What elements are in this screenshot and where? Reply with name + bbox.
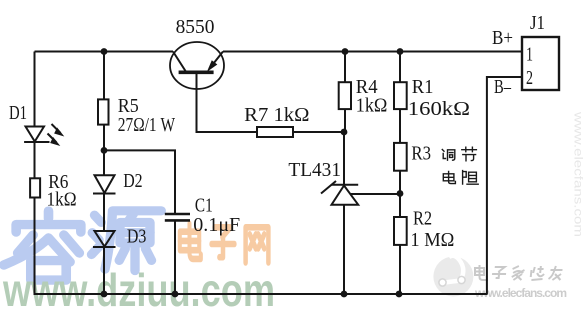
resistor R6: [30, 178, 40, 197]
svg-text:R1: R1: [412, 76, 434, 98]
wire left rail: [34, 52, 36, 296]
svg-text:J1: J1: [530, 12, 545, 34]
svg-text:27Ω/1 W: 27Ω/1 W: [118, 114, 175, 136]
wire C1 branch: [104, 150, 175, 294]
resistor R3: [394, 143, 407, 171]
svg-text:C1: C1: [195, 194, 213, 216]
svg-text:R3: R3: [411, 143, 431, 165]
svg-text:D2: D2: [123, 170, 142, 192]
svg-text:TL431: TL431: [288, 159, 341, 181]
node top rail R4: [342, 48, 349, 55]
svg-text:www.dziuu.com: www.dziuu.com: [2, 264, 275, 309]
resistor R5: [98, 99, 109, 124]
svg-text:www.elecfans.com: www.elecfans.com: [572, 111, 583, 237]
wire top rail right: [223, 51, 522, 53]
stamp logo circle: [433, 257, 473, 297]
svg-text:D3: D3: [127, 226, 146, 248]
diode D3: [93, 231, 116, 247]
wire R5 branch: [103, 52, 105, 151]
watermark blue char YUAN: [92, 211, 162, 271]
LED D1: [24, 124, 63, 145]
connector J1 box: [522, 37, 559, 90]
wire D2 D3 branch: [103, 150, 105, 294]
svg-text:2: 2: [526, 67, 533, 89]
diode D2: [93, 175, 116, 193]
transistor Q1 8550: [170, 42, 224, 89]
stamp text DIANZIFASHAOYOU: [475, 265, 563, 280]
resistor R4: [339, 82, 351, 109]
wire B- to J1: [487, 77, 522, 294]
TL431 U1: [321, 181, 358, 205]
svg-text:R7 1kΩ: R7 1kΩ: [244, 104, 309, 126]
svg-text:1: 1: [526, 44, 533, 66]
svg-text:8550: 8550: [176, 16, 215, 38]
watermark orange char ZI: [212, 227, 235, 257]
node R7 R4 TL431: [341, 129, 348, 136]
node top rail R1: [397, 48, 404, 55]
resistor R1: [394, 82, 407, 109]
wire TL431 cathode and anode: [343, 132, 345, 294]
wire TL431 ref to node: [350, 193, 400, 195]
svg-text:160kΩ: 160kΩ: [408, 98, 470, 120]
resistor R2: [394, 217, 407, 245]
node R3 R2 ref: [397, 190, 404, 197]
svg-text:1kΩ: 1kΩ: [47, 189, 77, 211]
wire R1 R3 R2 branch: [399, 52, 401, 295]
svg-text:B–: B–: [494, 76, 512, 98]
svg-text:1 MΩ: 1 MΩ: [410, 229, 454, 251]
watermark orange char WANG: [246, 227, 269, 262]
node bottom C1: [172, 291, 179, 298]
label TIAO JIE (adjust) CJK: [442, 147, 476, 161]
svg-text:1kΩ: 1kΩ: [356, 95, 388, 117]
wire top rail left: [35, 51, 174, 53]
resistor R7: [257, 127, 293, 137]
wire R4 branch: [344, 52, 346, 133]
svg-text:R2: R2: [413, 207, 432, 229]
wire transistor base to R7 to node: [197, 74, 345, 133]
node bottom R2: [396, 291, 403, 298]
capacitor C1: [165, 214, 190, 220]
svg-text:B+: B+: [492, 27, 513, 49]
wire bottom rail: [34, 293, 488, 295]
label DIAN ZU (resistor) CJK: [443, 171, 478, 185]
svg-text:www.elecfans.com: www.elecfans.com: [474, 286, 567, 300]
svg-text:D1: D1: [9, 102, 27, 124]
watermark blue char RONG: [4, 211, 161, 280]
node R5 bottom: [101, 147, 108, 154]
node bottom D3: [101, 291, 108, 298]
watermark orange char DIAN: [180, 224, 269, 263]
svg-text:0.1μF: 0.1μF: [193, 214, 240, 236]
node bottom TL431: [341, 291, 348, 298]
node top rail R5: [101, 48, 108, 55]
